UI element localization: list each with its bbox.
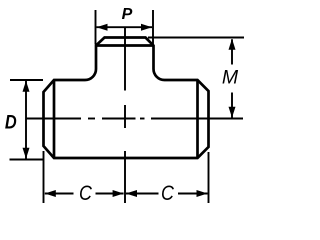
svg-text:M: M xyxy=(222,67,239,89)
left end bevel shoulder line xyxy=(53,80,56,158)
vertical branch centerline xyxy=(124,27,126,203)
dimension D reference line bottom xyxy=(10,159,45,161)
dimension P extension line left xyxy=(95,10,97,45)
dimension C right line xyxy=(126,193,208,195)
arrowhead D up xyxy=(23,81,30,92)
svg-text:P: P xyxy=(122,6,133,23)
branch weld-bevel shoulder line xyxy=(96,44,154,47)
arrowhead M down xyxy=(229,107,236,118)
svg-text:C: C xyxy=(161,182,175,205)
tee fitting body outline xyxy=(44,38,209,159)
dimension C left line xyxy=(45,193,124,195)
horizontal run centerline xyxy=(26,118,243,120)
svg-text:D: D xyxy=(5,111,17,133)
dimension P extension line right xyxy=(152,10,154,45)
arrowhead P right xyxy=(141,24,152,31)
arrowhead M up xyxy=(229,39,236,50)
arrowhead C2 left xyxy=(126,190,137,197)
arrowhead P left xyxy=(97,24,108,31)
dimension M reference line top xyxy=(148,37,244,39)
dimension D line xyxy=(25,81,27,159)
arrowhead D down xyxy=(23,148,30,159)
dimension D reference line top xyxy=(10,79,43,81)
dimension M line xyxy=(231,39,233,117)
dimension P line xyxy=(97,26,153,28)
svg-text:C: C xyxy=(79,182,93,205)
right end bevel shoulder line xyxy=(196,80,199,158)
dimension C extension line left xyxy=(43,151,45,203)
arrowhead C2 right xyxy=(197,190,208,197)
arrowhead C1 left xyxy=(45,190,56,197)
arrowhead C1 right xyxy=(113,190,124,197)
dimension C extension line right xyxy=(208,152,210,203)
